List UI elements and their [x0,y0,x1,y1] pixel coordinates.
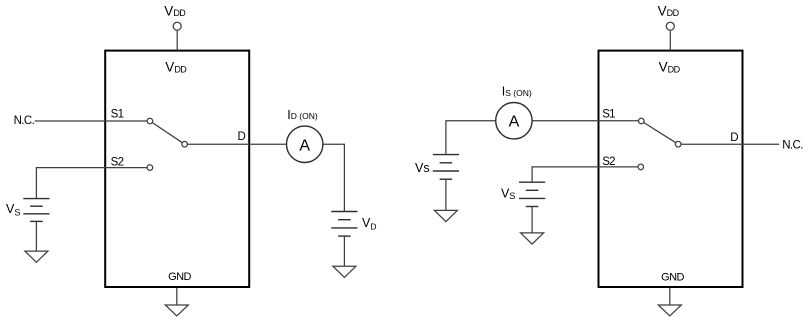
ammeter ID(ON) [287,126,323,162]
wire battery VS to ground (mid, right circuit) [531,207,533,233]
svg-text:Vs: Vs [415,161,430,175]
wire battery VS to ground (right circuit far left) [445,179,447,210]
wire battery VS to ammeter (right circuit) [446,121,496,155]
switch contact S2 (left) [147,165,153,171]
svg-text:D: D [238,131,246,143]
switch contact S2 (right) [638,164,644,170]
svg-text:N.C.: N.C. [782,140,803,152]
wire D to N.C. (right) [681,143,779,145]
svg-text:S2: S2 [111,157,124,169]
switch common contact D (left) [182,141,188,147]
svg-text:GND: GND [168,271,191,283]
svg-text:VD: VD [362,216,376,232]
svg-text:GND: GND [661,271,684,283]
wire battery VD to ground [343,236,345,266]
wire S2 to battery VS (left) [36,168,147,199]
wire battery VS to ground (left) [35,221,37,251]
wire VDD terminal to box (left) [176,30,178,50]
VDD terminal circle (left) [173,22,181,30]
ammeter IS(ON) [496,103,532,139]
battery VS (left circuit) [23,199,49,222]
switch blade (left) [152,123,182,143]
battery VS (mid, right circuit) [519,182,545,206]
wire N.C. to S1 pin (left) [35,120,148,122]
ground symbol (below mid VS) [521,233,544,244]
svg-text:VDD: VDD [659,60,681,75]
svg-text:VS: VS [6,202,20,218]
ground symbol (below far-left VS) [434,210,457,221]
svg-text:VDD: VDD [164,3,186,18]
switch blade (right) [644,123,676,143]
svg-text:ID (ON): ID (ON) [287,108,318,122]
VDD terminal circle (right) [666,22,674,30]
svg-text:A: A [299,137,310,154]
wire VDD terminal to box (right) [669,30,671,50]
svg-text:VS: VS [501,187,515,201]
wire D to ammeter (left) [187,143,286,145]
battery VD [331,212,357,237]
IC body U2 (right analog switch box) [599,51,743,287]
svg-text:VDD: VDD [165,60,187,75]
switch pole contact S1 (right) [639,118,645,124]
ground symbol (below right box) [658,288,681,316]
wire S2 to battery VS (mid, right circuit) [532,167,638,182]
wire ammeter to S1 pin (right) [532,120,638,122]
svg-text:D: D [730,132,738,144]
svg-text:A: A [509,113,520,130]
svg-text:S1: S1 [111,109,124,121]
svg-text:S1: S1 [602,108,615,120]
svg-text:N.C.: N.C. [14,115,35,127]
ground symbol (below VD) [333,266,356,277]
svg-text:IS (ON): IS (ON) [502,85,532,99]
battery VS (far left of right circuit) [433,155,459,180]
switch pole contact S1 (left) [147,118,153,124]
ground symbol (below VS, left) [25,251,48,262]
svg-text:VDD: VDD [658,3,680,18]
IC body U1 (left analog switch box) [105,51,249,287]
ground symbol (below left box) [165,288,188,316]
switch common contact D (right) [675,141,681,147]
wire ammeter to battery VD [323,144,345,211]
